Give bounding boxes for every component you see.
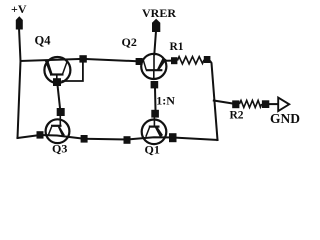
svg-text:R1: R1 xyxy=(170,41,184,53)
svg-text:+V: +V xyxy=(11,2,27,16)
svg-text:1:N: 1:N xyxy=(156,94,175,108)
svg-text:Q3: Q3 xyxy=(52,142,67,156)
svg-text:Q2: Q2 xyxy=(122,35,137,49)
svg-text:Q1: Q1 xyxy=(145,143,160,157)
svg-text:VRER: VRER xyxy=(142,6,176,20)
svg-text:Q4: Q4 xyxy=(35,34,52,48)
svg-text:R2: R2 xyxy=(230,110,244,122)
svg-text:GND: GND xyxy=(270,111,300,126)
